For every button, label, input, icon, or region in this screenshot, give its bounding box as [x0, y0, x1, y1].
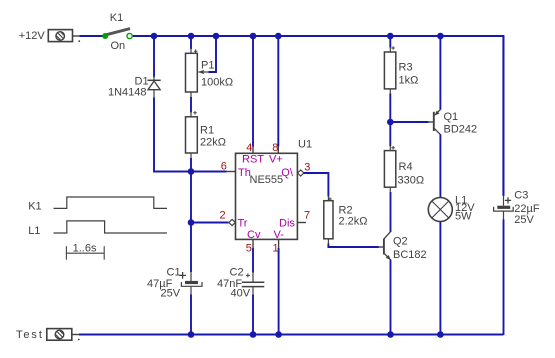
IC U1 NE555 body — [236, 153, 298, 239]
svg-text:R4: R4 — [399, 161, 413, 173]
wire R2 to Q2 base — [328, 244, 378, 248]
wire D1 branch down — [153, 36, 155, 77]
svg-text:330Ω: 330Ω — [398, 174, 425, 186]
svg-text:+12V: +12V — [19, 30, 46, 42]
wire R3 to junction — [389, 94, 391, 123]
junction node R3/R4/Q1 base — [387, 119, 394, 126]
svg-text:NE555: NE555 — [250, 174, 284, 186]
pin 1 lead — [278, 239, 280, 248]
svg-text:C3: C3 — [514, 190, 528, 202]
waveform K1 trace — [54, 197, 168, 208]
svg-text:Th: Th — [238, 167, 251, 179]
wire Q2 emitter to bottom rail — [390, 260, 392, 336]
junction V+ rail / pin 8 — [275, 33, 282, 40]
svg-text:5W: 5W — [455, 210, 472, 222]
svg-text:RST: RST — [242, 154, 264, 166]
junction V+ rail / R3 — [387, 33, 394, 40]
svg-text:C1: C1 — [167, 267, 181, 279]
svg-text:D1: D1 — [135, 75, 149, 87]
svg-text:Tr: Tr — [238, 218, 248, 230]
Q2 base lead — [379, 246, 384, 248]
junction V+ rail / P1 wiper — [213, 33, 220, 40]
resistor R1 — [186, 111, 198, 159]
pin 8 lead — [277, 146, 279, 153]
pin 4 lead — [252, 146, 254, 153]
wire Tr net — [191, 222, 229, 224]
resistor R2 — [324, 196, 333, 244]
wire junction to Q1 base — [390, 121, 428, 123]
junction GND rail / pin 1 — [275, 331, 282, 338]
wire pin5 to C2 — [252, 248, 254, 273]
svg-text:Test: Test — [16, 329, 44, 341]
wire pin8 to rail — [277, 36, 279, 147]
terminal Test symbol — [47, 329, 80, 341]
svg-text:1kΩ: 1kΩ — [399, 75, 419, 87]
wire D1 to Th net — [154, 98, 227, 172]
svg-text:1..6s: 1..6s — [73, 242, 97, 254]
svg-text:4: 4 — [246, 142, 252, 154]
svg-text:Q1: Q1 — [444, 111, 459, 123]
pin 3 diamond — [298, 170, 304, 176]
svg-text:U1: U1 — [298, 138, 312, 150]
svg-text:Dis: Dis — [279, 218, 295, 230]
svg-text:P1: P1 — [201, 59, 214, 71]
svg-text:On: On — [111, 40, 126, 52]
switch K1 — [102, 12, 132, 52]
wire C3 to bottom rail — [503, 220, 505, 336]
terminal +12V symbol — [48, 30, 80, 42]
junction GND rail / C2 — [250, 331, 257, 338]
pin 2 diamond — [229, 219, 236, 225]
junction V+ rail / D1 — [151, 33, 158, 40]
resistor R4 — [384, 146, 395, 193]
wire C1 to bottom rail — [190, 295, 192, 336]
svg-text:L1: L1 — [28, 225, 40, 237]
junction V+ rail / P1 top — [188, 33, 195, 40]
wire pin4 to rail — [252, 36, 254, 147]
waveform L1 trace — [54, 221, 168, 233]
svg-text:6: 6 — [221, 160, 227, 172]
diode D1 — [148, 76, 161, 99]
wire C2 to bottom rail — [252, 295, 254, 336]
transistor Q2 — [384, 232, 391, 260]
wire junction to R4 — [389, 122, 391, 146]
svg-text:R1: R1 — [200, 124, 214, 136]
junction GND rail / Q2 emitter — [387, 331, 394, 338]
svg-text:K1: K1 — [28, 200, 41, 212]
wire top rail — [133, 36, 504, 196]
svg-text:Q\: Q\ — [281, 167, 294, 179]
wire P1 branch down — [190, 36, 192, 49]
wire pin1 to bottom rail — [278, 248, 280, 335]
svg-text:K1: K1 — [110, 12, 123, 24]
wire R4 to Q2 collector — [390, 192, 392, 232]
lamp L1 — [428, 198, 452, 222]
capacitor C2 — [242, 272, 264, 295]
svg-text:V+: V+ — [269, 154, 283, 166]
svg-text:C2: C2 — [230, 267, 244, 279]
pin 5 lead — [252, 239, 254, 248]
svg-text:3: 3 — [304, 162, 310, 174]
Q1 base lead — [428, 121, 433, 123]
svg-text:BC182: BC182 — [393, 249, 427, 261]
svg-text:2.2kΩ: 2.2kΩ — [339, 215, 368, 227]
svg-text:5: 5 — [246, 243, 252, 255]
potentiometer P1 — [186, 48, 210, 98]
svg-text:Cv: Cv — [247, 229, 261, 241]
svg-text:1N4148: 1N4148 — [108, 87, 147, 99]
svg-text:2: 2 — [220, 209, 226, 221]
capacitor C1 — [179, 272, 202, 296]
wire R3 branch — [389, 36, 391, 48]
svg-text:7: 7 — [304, 209, 310, 221]
wire lamp to bottom rail — [439, 222, 441, 336]
junction V+ rail / Q1 emitter — [437, 33, 444, 40]
junction V+ rail / pin 4 — [250, 33, 257, 40]
svg-text:25V: 25V — [161, 288, 181, 300]
svg-text:Q2: Q2 — [393, 235, 408, 247]
svg-text:40V: 40V — [231, 288, 251, 300]
pin 6 lead — [226, 171, 236, 173]
svg-text:22kΩ: 22kΩ — [200, 137, 226, 149]
wire from +12V to switch — [80, 35, 104, 37]
svg-text:V-: V- — [274, 229, 285, 241]
junction GND rail / lamp L1 — [437, 331, 444, 338]
svg-text:25V: 25V — [514, 214, 534, 226]
junction GND rail / C1 — [188, 331, 195, 338]
capacitor C3 — [494, 196, 514, 221]
wire Q1 collector to lamp — [439, 134, 441, 197]
transistor Q1 — [434, 110, 441, 135]
svg-text:R3: R3 — [399, 61, 413, 73]
wire bottom rail — [79, 334, 504, 336]
junction node Th/Tr/R1/C1 — [188, 168, 195, 175]
wire Q1 emitter from rail — [439, 36, 441, 110]
wire P1 wiper to top rail — [209, 36, 217, 72]
svg-text:BD242: BD242 — [444, 124, 478, 136]
wire Th junction down to C1 — [190, 172, 192, 273]
svg-text:100kΩ: 100kΩ — [201, 77, 233, 89]
wire C3 from rail — [503, 36, 505, 196]
wire P1 to R1 — [190, 97, 192, 113]
junction node Tr branch — [188, 219, 195, 226]
wire R1 to Th junction — [190, 158, 192, 172]
dimension 1..6s — [66, 246, 104, 260]
pin 7 lead — [297, 222, 306, 224]
wire pin3 to R2 — [304, 173, 329, 197]
resistor R3 — [384, 46, 395, 94]
